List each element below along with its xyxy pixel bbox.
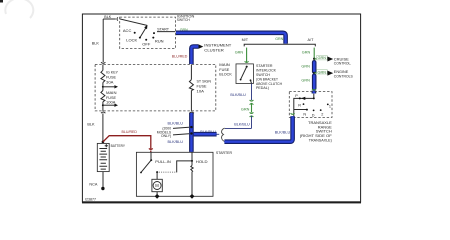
svg-text:GRN: GRN: [318, 56, 327, 60]
svg-text:RUN: RUN: [155, 39, 164, 44]
svg-text:BLU/RED: BLU/RED: [172, 55, 188, 59]
svg-text:BLK: BLK: [92, 42, 100, 46]
svg-text:M: M: [155, 183, 159, 188]
starter interlock switch box U2: [236, 64, 253, 84]
svg-text:GRN: GRN: [235, 51, 244, 55]
svg-text:GRN: GRN: [302, 51, 311, 55]
thin stub at A end: [216, 133, 220, 135]
label STARTER INTERLOCK SWITCH: [256, 64, 282, 90]
svg-text:LOCK: LOCK: [126, 37, 137, 42]
node battery positive: [102, 141, 105, 144]
interlock output node: [250, 79, 252, 81]
wire ST SIGN fuse upper: [190, 65, 192, 80]
connector at fuse box bottom: [101, 112, 105, 113]
fuse ST SIGN 10A: [189, 80, 193, 91]
node pull-in to motor: [156, 171, 158, 173]
interlock lever end node: [240, 79, 242, 81]
svg-text:STARTER: STARTER: [216, 151, 232, 155]
wire below MAIN fuse: [102, 102, 104, 111]
wire fork M/T A/T: [244, 44, 315, 46]
mechanical link dashed: [159, 171, 177, 173]
svg-text:2: 2: [321, 112, 323, 116]
wire GRN segment (interlock chain): [251, 103, 253, 113]
svg-text:TRANSAXLE): TRANSAXLE): [309, 138, 333, 142]
svg-text:FUSE: FUSE: [197, 84, 208, 88]
svg-text:CONTROLS: CONTROLS: [334, 74, 353, 78]
svg-text:N: N: [303, 113, 306, 117]
svg-text:OFF: OFF: [142, 41, 151, 46]
fuse MAIN 100A: [101, 91, 105, 102]
ignition switch lever: [140, 25, 148, 38]
arrow to instrument cluster: [199, 44, 204, 48]
node P contact: [299, 97, 301, 99]
connector at starter pull-in input: [149, 148, 153, 152]
svg-text:BLK/BLU: BLK/BLU: [168, 140, 184, 144]
svg-text:R: R: [298, 103, 301, 107]
connector at interlock input: [245, 61, 249, 62]
node RUN: [152, 37, 154, 39]
connector at fuse box top: [101, 62, 105, 63]
pull-in lever end node: [140, 172, 142, 174]
svg-text:BLK/BLU: BLK/BLU: [200, 130, 216, 134]
svg-text:NCA: NCA: [89, 183, 97, 187]
pull-in winding path: [177, 161, 192, 173]
thick blue entry stub into range switch: [312, 91, 317, 94]
connector pair (interlock chain lower): [250, 112, 254, 117]
wire to motor: [156, 172, 158, 179]
wire GRN to engine controls: [314, 72, 327, 74]
svg-text:BLK: BLK: [87, 123, 95, 127]
wire BLU/RED instrument cluster elbow (thick): [191, 47, 198, 65]
node R: [303, 103, 305, 105]
connector at range switch input: [312, 89, 316, 93]
thick blue capsule 2: [312, 76, 317, 89]
wire thick blue bus (START to fork): [176, 33, 286, 44]
svg-text:BLK/BLU: BLK/BLU: [234, 122, 250, 126]
wire battery negative: [102, 172, 104, 188]
boxed label GRN (engine): [317, 70, 328, 75]
interlock output stub: [251, 80, 252, 83]
node 1: [327, 104, 329, 106]
svg-text:ACC: ACC: [123, 28, 132, 33]
branch arrow 1: [103, 85, 118, 88]
svg-text:30A: 30A: [106, 81, 114, 85]
wire thick blue horizontal A: [194, 132, 217, 137]
junction diamond (hold ground): [190, 194, 195, 199]
node branch 2: [102, 104, 104, 106]
node junction upper (2000 models): [190, 126, 192, 128]
boxed label GRN (cruise): [317, 56, 328, 61]
svg-text:BLK/BLU: BLK/BLU: [275, 131, 291, 135]
ignition switch feed wire: [120, 19, 147, 26]
label TRANSAXLE RANGE SWITCH: [300, 121, 333, 142]
wire GRN to cruise control: [314, 58, 327, 60]
svg-text:A/T: A/T: [308, 38, 315, 42]
connector at ignition switch input: [116, 17, 119, 20]
node junction lower (2000 models): [190, 132, 192, 134]
wire thick blue range switch output (down and left): [224, 116, 292, 142]
border frame: [82, 14, 361, 203]
arrow to cruise control: [327, 57, 333, 62]
svg-text:MAIN: MAIN: [219, 63, 230, 67]
svg-text:SWITCH: SWITCH: [177, 18, 190, 22]
node START: [153, 32, 155, 34]
svg-text:M/T: M/T: [242, 38, 249, 42]
svg-text:BLK: BLK: [104, 15, 111, 19]
svg-text:FUSE: FUSE: [106, 96, 117, 100]
wire BLK/BLU drop to junction line: [251, 116, 253, 129]
node LOCK: [139, 37, 141, 39]
ignition switch dashed box: [120, 17, 176, 48]
battery B1: [97, 143, 109, 171]
svg-text:HOLD: HOLD: [196, 160, 208, 164]
pull-in lever: [141, 160, 151, 172]
watermark corner mark: [0, 0, 33, 18]
wire motor to ground bus: [156, 192, 158, 197]
svg-text:START: START: [157, 26, 170, 31]
node N: [306, 109, 308, 111]
thick blue capsule 1: [312, 62, 317, 71]
junction diamond (motor ground): [155, 194, 160, 199]
starter box: [136, 152, 213, 196]
svg-text:P: P: [295, 94, 298, 98]
label MAIN FUSE BLOCK: [219, 63, 232, 76]
motor M1: [152, 179, 162, 191]
wire BLK vertical (battery to fuse box): [102, 19, 104, 62]
wire GRN to interlock switch: [246, 48, 248, 63]
node to cruise control: [313, 58, 315, 60]
wire between fuses: [102, 83, 104, 91]
label IG KEY FUSE 30A: [106, 71, 119, 85]
branch arrow 2: [103, 104, 118, 107]
fuse IG KEY 30A: [101, 70, 105, 82]
node ACC: [134, 32, 136, 34]
svg-text:ONLY): ONLY): [161, 134, 171, 138]
wire BLK/BLU below interlock: [251, 84, 253, 101]
connector at range switch output: [291, 113, 295, 117]
svg-text:D: D: [312, 114, 315, 118]
node branch 1: [102, 86, 104, 88]
svg-text:GRN: GRN: [301, 64, 310, 68]
svg-text:BLK/BLU: BLK/BLU: [230, 93, 246, 97]
wire hold coil: [191, 152, 193, 196]
svg-text:I23877: I23877: [85, 197, 96, 201]
wire BLU/RED battery to starter: [103, 136, 151, 149]
node to engine controls: [313, 72, 315, 74]
svg-text:GRN: GRN: [318, 70, 327, 74]
svg-text:GRN: GRN: [241, 107, 250, 111]
interlock input node: [246, 66, 248, 68]
connector pair (interlock chain upper): [250, 100, 254, 105]
range switch internal wiring: [294, 94, 314, 118]
note pointer lines: [173, 127, 189, 135]
wire ST SIGN fuse lower: [190, 91, 192, 111]
node OFF: [145, 39, 147, 41]
svg-text:1: 1: [329, 105, 331, 109]
connector at fuse box bottom (middle wire): [190, 112, 194, 113]
moving contact arrow (range switch): [301, 97, 305, 100]
label CRUISE CONTROL: [334, 57, 352, 65]
svg-text:CLUSTER: CLUSTER: [204, 47, 224, 52]
wire pull-in input inside box: [150, 152, 152, 160]
svg-text:SWITCH: SWITCH: [256, 73, 270, 77]
svg-text:SWITCH: SWITCH: [316, 130, 332, 134]
svg-text:ABOVE CLUTCH: ABOVE CLUTCH: [256, 82, 282, 86]
svg-text:GRN: GRN: [275, 37, 283, 41]
svg-text:STARTER: STARTER: [256, 64, 273, 68]
svg-text:IG KEY: IG KEY: [106, 71, 119, 75]
svg-text:FUSE: FUSE: [106, 76, 117, 80]
wire inside fuse box (left): [102, 65, 104, 71]
wire BLK to battery: [102, 113, 104, 141]
svg-text:INTERLOCK: INTERLOCK: [256, 68, 277, 72]
label ST SIGN FUSE 10A: [197, 79, 212, 93]
node 2: [320, 109, 322, 111]
svg-text:BATTERY: BATTERY: [111, 144, 126, 148]
transaxle range switch dashed box: [289, 92, 332, 118]
label INSTRUMENT CLUSTER: [204, 43, 232, 53]
label (2000 MODELS ONLY): [157, 127, 172, 139]
label ENGINE CONTROLS: [334, 70, 353, 78]
arrow to engine controls: [327, 71, 333, 76]
svg-text:PEDAL): PEDAL): [256, 86, 269, 90]
svg-text:PULL-IN: PULL-IN: [155, 160, 171, 164]
interlock lever: [241, 67, 247, 80]
svg-text:MAIN: MAIN: [106, 91, 117, 95]
svg-text:10A: 10A: [197, 89, 205, 93]
label IGNITION SWITCH: [177, 15, 195, 23]
hold coil squiggle: [191, 165, 193, 171]
svg-text:BLOCK: BLOCK: [219, 73, 232, 77]
svg-text:BLU/RED: BLU/RED: [122, 130, 138, 134]
label MAIN FUSE 100A: [106, 91, 117, 104]
node D: [313, 110, 315, 112]
inline connector brace: [222, 128, 225, 141]
svg-text:(ON BRACKET: (ON BRACKET: [256, 77, 279, 81]
node hold input: [191, 160, 193, 162]
main fuse block dashed box: [95, 64, 216, 111]
wire thick blue main vertical: [189, 113, 194, 152]
svg-text:CONTROL.: CONTROL.: [334, 62, 352, 66]
wire START output: [157, 31, 175, 33]
svg-text:GRN: GRN: [301, 79, 310, 83]
wire GRN A/T down: [313, 48, 315, 59]
svg-text:FUSE: FUSE: [219, 68, 230, 72]
svg-text:BLK/BLU: BLK/BLU: [168, 122, 184, 126]
ground NCA: [101, 187, 104, 190]
wire junction line to range switch output: [225, 127, 252, 129]
wire BLK feed to ignition switch (horizontal): [103, 18, 116, 20]
node feed contact: [313, 97, 315, 99]
node pull-in contact: [150, 159, 152, 161]
svg-text:ST SIGN: ST SIGN: [197, 79, 212, 83]
